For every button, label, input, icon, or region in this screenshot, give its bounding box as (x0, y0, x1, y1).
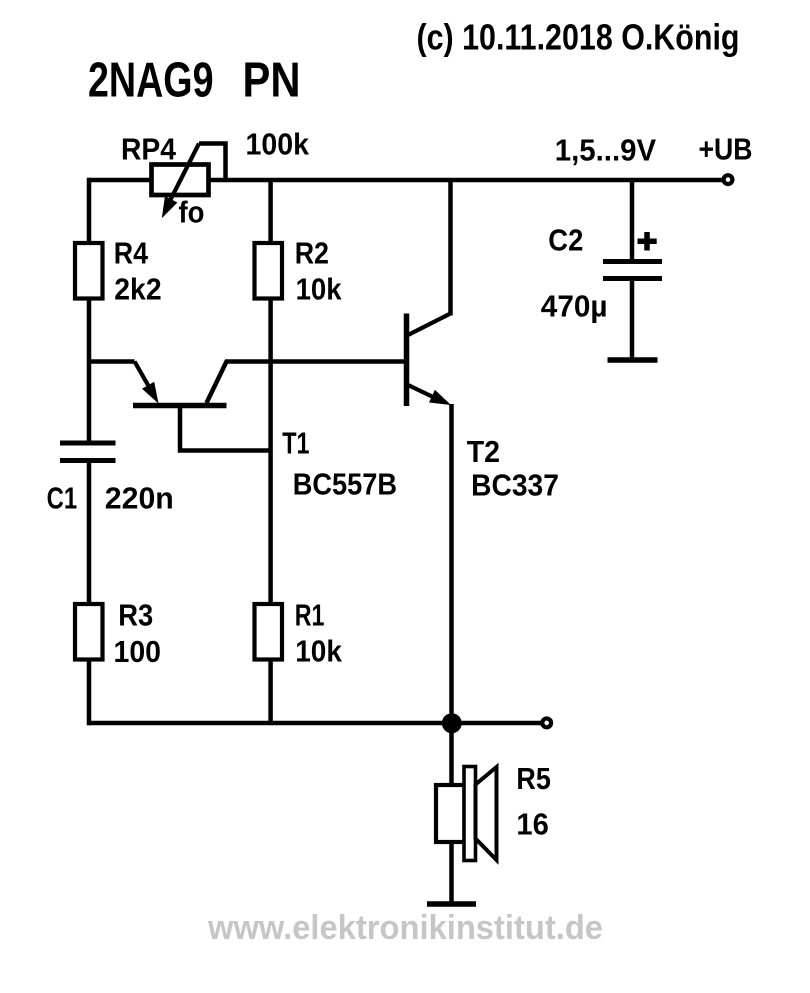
capacitor C2 (603, 180, 662, 358)
svg-text:10k: 10k (296, 271, 343, 306)
svg-text:470µ: 470µ (541, 289, 608, 324)
transistor T1 emitter wire (89, 359, 135, 364)
title 2NAG9 PN (88, 53, 301, 108)
terminal +UB (724, 175, 733, 184)
svg-text:R2: R2 (295, 236, 329, 271)
wire: left rail lower segment (87, 462, 92, 725)
svg-text:RP4: RP4 (121, 132, 177, 167)
svg-text:R1: R1 (295, 598, 325, 633)
transistor T2 base bar (404, 314, 410, 407)
svg-text:+UB: +UB (699, 132, 753, 167)
speaker R5 frame (464, 767, 476, 861)
potentiometer RP4 body (152, 165, 209, 196)
wire: top supply rail (89, 178, 722, 183)
terminal bar below C2 (608, 357, 658, 363)
resistor R3 (75, 604, 103, 660)
svg-text:C2: C2 (548, 223, 583, 258)
svg-text:100: 100 (114, 634, 162, 669)
transistor T1 base connection (180, 405, 269, 451)
svg-text:100k: 100k (246, 127, 310, 162)
wire: left rail upper segment (87, 178, 92, 441)
svg-text:R4: R4 (114, 236, 149, 271)
wire: middle rail R2-R1 (268, 180, 273, 723)
svg-text:T1: T1 (282, 426, 309, 461)
ground bar (427, 901, 476, 907)
speaker R5 cone (476, 767, 497, 860)
svg-text:10k: 10k (295, 634, 342, 669)
potentiometer RP4 wiper arrow (162, 144, 199, 219)
svg-text:(c) 10.11.2018 O.König: (c) 10.11.2018 O.König (417, 17, 740, 58)
capacitor C1 (60, 443, 116, 461)
svg-text:16: 16 (516, 806, 548, 841)
svg-text:PN: PN (243, 53, 301, 108)
svg-text:R5: R5 (516, 761, 550, 796)
wire: bottom rail (89, 721, 541, 726)
svg-text:fo: fo (179, 195, 205, 230)
svg-text:C1: C1 (47, 481, 78, 516)
potentiometer RP4 wiper connection (199, 144, 226, 179)
svg-text:2k2: 2k2 (114, 271, 161, 306)
resistor R2 (255, 243, 283, 299)
svg-text:BC337: BC337 (471, 468, 559, 503)
transistor T1 base bar (133, 403, 227, 409)
svg-text:T2: T2 (467, 434, 500, 469)
transistor T2 emitter arrow (407, 385, 452, 724)
resistor R1 (255, 604, 283, 660)
wire: speaker to ground (449, 842, 454, 902)
transistor T1 collector (207, 362, 405, 404)
svg-text:www.elektronikinstitut.de: www.elektronikinstitut.de (207, 909, 603, 947)
capacitor C2 plus sign (638, 232, 657, 251)
transistor T2 collector (407, 178, 451, 336)
svg-text:1,5...9V: 1,5...9V (555, 133, 657, 168)
transistor T1 emitter arrow (135, 362, 159, 404)
svg-text:R3: R3 (118, 598, 153, 633)
svg-text:BC557B: BC557B (293, 467, 397, 502)
junction dot (442, 713, 462, 733)
terminal bottom right (542, 719, 551, 728)
wire: junction to speaker (449, 723, 454, 787)
resistor R4 (75, 243, 103, 299)
svg-text:2NAG9: 2NAG9 (88, 53, 214, 108)
svg-text:220n: 220n (105, 481, 174, 516)
speaker R5 magnet (436, 785, 465, 842)
